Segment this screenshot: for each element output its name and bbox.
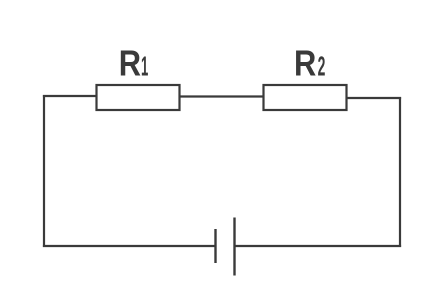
- wire between R1 and R2: [179, 95, 264, 97]
- label R2: [294, 44, 325, 84]
- wire top-right horizontal: [346, 97, 401, 99]
- wire right vertical: [399, 97, 401, 247]
- resistor R1: [97, 85, 180, 110]
- label R1: [119, 44, 149, 84]
- svg-text:2: 2: [318, 50, 326, 82]
- battery positive plate (tall bar): [233, 218, 235, 276]
- battery negative plate (short bar): [214, 229, 216, 263]
- svg-text:R: R: [294, 44, 316, 84]
- wire bottom-right horizontal: [235, 245, 402, 247]
- svg-text:R: R: [119, 44, 141, 84]
- wire bottom-left horizontal: [43, 245, 216, 247]
- wire left vertical: [43, 95, 45, 247]
- resistor R2: [264, 85, 347, 110]
- svg-text:1: 1: [141, 50, 148, 82]
- wire top-left horizontal: [43, 95, 97, 97]
